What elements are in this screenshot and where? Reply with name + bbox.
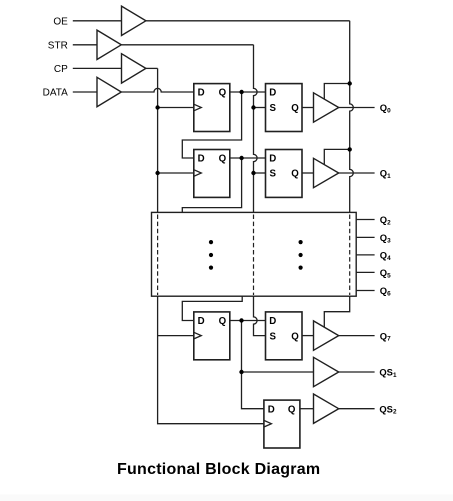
svg-text:D: D — [198, 316, 205, 327]
svg-text:STR: STR — [48, 40, 68, 51]
svg-text:Q: Q — [291, 169, 299, 180]
svg-text:Functional Block Diagram: Functional Block Diagram — [117, 461, 320, 478]
svg-text:Q: Q — [219, 154, 227, 165]
svg-text:D: D — [198, 88, 205, 99]
svg-text:S: S — [270, 169, 277, 180]
svg-text:Q: Q — [219, 316, 227, 327]
svg-text:D: D — [269, 154, 276, 165]
svg-text:DATA: DATA — [43, 88, 69, 99]
svg-text:Q: Q — [288, 404, 296, 415]
svg-text:S: S — [270, 103, 277, 114]
svg-text:D: D — [268, 404, 275, 415]
svg-text:S: S — [270, 331, 277, 342]
svg-text:D: D — [269, 316, 276, 327]
svg-text:CP: CP — [54, 64, 68, 75]
svg-text:Q: Q — [291, 331, 299, 342]
svg-text:OE: OE — [53, 16, 68, 27]
svg-text:Q: Q — [291, 103, 299, 114]
svg-text:D: D — [269, 88, 276, 99]
svg-text:Q: Q — [219, 88, 227, 99]
svg-text:D: D — [198, 154, 205, 165]
